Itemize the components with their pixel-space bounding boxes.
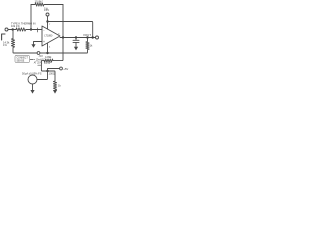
svg-text:10k 1%: 10k 1% bbox=[11, 24, 20, 28]
resistor R2 input bbox=[16, 28, 26, 31]
wire current source connection bbox=[37, 71, 48, 80]
wire resistor R3 bottom to rail bbox=[13, 48, 87, 53]
ground arrow below C1 bbox=[74, 47, 78, 51]
op-amp V+ supply stub bbox=[47, 16, 49, 29]
node output junction bbox=[62, 36, 64, 38]
svg-text:+: + bbox=[43, 40, 45, 44]
svg-text:100Ω: 100Ω bbox=[49, 72, 55, 76]
terminal VOUT circle bbox=[96, 36, 99, 39]
current source I1 circle bbox=[28, 75, 37, 84]
svg-text:1k: 1k bbox=[90, 44, 93, 48]
node inverting input junction bbox=[30, 28, 32, 30]
note box bbox=[15, 56, 30, 63]
svg-text:6: 6 bbox=[58, 33, 60, 35]
svg-text:-5V: -5V bbox=[39, 54, 43, 58]
resistor R4 1k (vertical at right) bbox=[86, 38, 89, 54]
svg-text:7: 7 bbox=[49, 24, 51, 26]
node bottom junction dot bbox=[46, 70, 48, 72]
op-amp U1 triangle bbox=[42, 26, 60, 46]
svg-text:0.1%*: 0.1%* bbox=[44, 61, 51, 65]
wire bottom node horizontal bbox=[41, 70, 55, 81]
svg-text:-: - bbox=[43, 28, 45, 33]
wire output to divider vertical bbox=[61, 38, 64, 61]
terminal -5V circle inline bbox=[37, 52, 40, 55]
wire top feedback right vertical bbox=[62, 5, 64, 38]
wire inverting node down bbox=[12, 30, 14, 39]
wire divider horizontal lead bbox=[41, 61, 62, 71]
node input junction dot bbox=[12, 28, 14, 30]
svg-text:SENSE: SENSE bbox=[17, 60, 25, 62]
svg-text:AT 25°C: AT 25°C bbox=[34, 61, 43, 64]
svg-text:LT1880: LT1880 bbox=[44, 34, 53, 37]
svg-text:= 10mV/°C: = 10mV/°C bbox=[34, 60, 46, 62]
svg-text:4.99k: 4.99k bbox=[45, 55, 52, 59]
ground arrow at op-amp + input bbox=[34, 42, 43, 45]
svg-text:CONNECT: CONNECT bbox=[17, 57, 29, 59]
pin 2 tick bbox=[37, 28, 39, 32]
wire bootstrap top horizontal bbox=[48, 22, 93, 38]
svg-text:+5V: +5V bbox=[44, 8, 49, 12]
wire output horizontal bbox=[60, 37, 96, 39]
wire to +5V terminal bbox=[48, 69, 60, 72]
wire top feedback loop left vertical bbox=[30, 5, 32, 30]
node V- pin junction bbox=[46, 52, 48, 54]
wire input horizontal bbox=[8, 29, 42, 31]
terminal +5V right circle bbox=[60, 67, 63, 70]
svg-text:15.8k*: 15.8k* bbox=[35, 0, 44, 4]
resistor R5 5k (horizontal) bbox=[44, 59, 53, 62]
node filter cap junction bbox=[75, 36, 77, 38]
svg-text:+5V: +5V bbox=[63, 67, 68, 71]
svg-text:1k: 1k bbox=[58, 83, 61, 87]
svg-text:50µA ±0.05% FS: 50µA ±0.05% FS bbox=[22, 71, 42, 75]
wire stub at node A bbox=[38, 64, 42, 66]
wire top feedback horizontal bbox=[31, 4, 63, 6]
op-amp V- supply stub bbox=[47, 43, 49, 53]
note pointer dash bbox=[30, 59, 33, 61]
svg-text:VOUT: VOUT bbox=[83, 33, 91, 37]
terminal VIN circle bbox=[5, 28, 8, 31]
node V+ bypass junction bbox=[46, 20, 48, 22]
resistor R6 sense (vertical bottom) bbox=[53, 81, 56, 90]
wire current source to ground bbox=[32, 84, 34, 90]
capacitor C1 to ground bbox=[73, 38, 79, 47]
node load resistor junction bbox=[86, 36, 88, 38]
terminal +5V circle bbox=[46, 13, 49, 16]
resistor R3 14.3k (vertical) bbox=[11, 39, 14, 48]
svg-text:4: 4 bbox=[49, 46, 51, 48]
ground arrow below R6 bbox=[53, 90, 57, 94]
wire edge connector stub bbox=[2, 34, 5, 40]
ground arrow below I1 bbox=[30, 90, 34, 94]
resistor R1 15.8k (top feedback) bbox=[35, 3, 44, 6]
node bootstrap output junction bbox=[92, 36, 94, 38]
